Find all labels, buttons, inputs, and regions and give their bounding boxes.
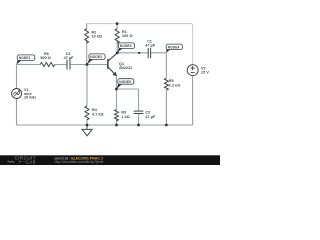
wire C2 top lead xyxy=(138,89,140,111)
wire C2 bottom lead xyxy=(138,114,140,126)
wire R5 bottom lead xyxy=(165,90,167,125)
svg-text:1 kΩ: 1 kΩ xyxy=(121,115,129,119)
node NODE2 xyxy=(87,59,93,64)
junction dot top rail R1 xyxy=(116,22,119,25)
wire V2 bottom to rail xyxy=(192,76,194,125)
resistor R6 xyxy=(40,63,55,67)
resistor R3 xyxy=(115,110,119,121)
capacitor C3 xyxy=(67,60,70,70)
wire R4 top lead xyxy=(86,65,88,107)
junction rail R4 xyxy=(86,124,89,127)
node NODE4 xyxy=(166,49,170,53)
wire top rail (light) xyxy=(87,24,193,65)
source V2 xyxy=(187,65,198,76)
svg-text:47 µF: 47 µF xyxy=(145,43,156,47)
wire bottom rail xyxy=(17,124,193,126)
svg-text:47 µF: 47 µF xyxy=(64,56,75,60)
resistor R2 xyxy=(85,29,89,44)
wire C1 to NODE4 corner xyxy=(151,52,167,54)
svg-text:NODE2: NODE2 xyxy=(90,55,102,59)
svg-text:500 Ω: 500 Ω xyxy=(40,56,51,60)
svg-text:NODE3: NODE3 xyxy=(120,44,132,48)
svg-text:2N2222: 2N2222 xyxy=(119,66,132,70)
wire R2 top lead xyxy=(86,24,88,29)
junction collector wire xyxy=(138,52,140,54)
resistor R5 xyxy=(164,78,168,90)
wire R3 top lead xyxy=(116,89,118,110)
wire NODE1 down to V1 xyxy=(16,65,18,89)
wire R1 bottom lead xyxy=(116,40,118,53)
svg-text:4.7 kΩ: 4.7 kΩ xyxy=(92,112,104,116)
wire collector to C1 xyxy=(117,52,148,54)
junction node NODE2 xyxy=(86,63,89,66)
svg-text:http://circuitlab.com/c8e3jv7j: http://circuitlab.com/c8e3jv7jbvfe xyxy=(55,160,104,164)
wire R4 bottom lead xyxy=(86,119,88,125)
emitter arrowhead xyxy=(112,72,117,77)
transistor Q1 xyxy=(108,53,117,75)
footer bar xyxy=(0,155,220,165)
node NODE5 xyxy=(116,84,122,89)
capacitor C2 xyxy=(134,111,144,113)
capacitor C1 xyxy=(148,48,150,58)
wire NODE4 down R5 top lead xyxy=(165,53,167,78)
node NODE3 xyxy=(117,48,123,53)
wire R1 top lead xyxy=(116,24,118,29)
wire C3 to NODE2 xyxy=(70,64,87,66)
wire V1 bottom to rail xyxy=(16,99,18,125)
svg-text:NODE1: NODE1 xyxy=(19,56,31,60)
svg-text:2.2 kΩ: 2.2 kΩ xyxy=(169,83,181,87)
wire R2 bottom lead xyxy=(86,40,88,65)
wire NODE1 to R6 xyxy=(17,64,41,66)
svg-text:100 Ω: 100 Ω xyxy=(122,34,133,38)
svg-text:15 V: 15 V xyxy=(201,70,209,74)
wire emitter down to NODE5 xyxy=(115,75,117,89)
svg-text:10 kHz: 10 kHz xyxy=(24,96,36,100)
junction rail R3 xyxy=(115,124,118,127)
resistor R4 xyxy=(85,106,89,120)
ground xyxy=(82,125,92,136)
junction rail R5 xyxy=(165,124,168,127)
resistor R1 xyxy=(115,29,119,44)
wire NODE5 to C2 branch xyxy=(116,88,138,90)
node NODE1 xyxy=(16,60,21,65)
svg-text:NODE5: NODE5 xyxy=(119,80,131,84)
wire NODE2 to base xyxy=(87,64,108,66)
wire R3 bottom lead xyxy=(116,119,118,125)
svg-text:10 kΩ: 10 kΩ xyxy=(92,35,103,39)
junction rail C2 xyxy=(137,124,140,127)
wire R6 to C3 xyxy=(55,64,67,66)
junction NODE5 xyxy=(115,88,118,91)
footer logo resistor squiggle xyxy=(8,161,15,163)
svg-text:NODE4: NODE4 xyxy=(168,45,180,49)
junction collector xyxy=(116,51,119,54)
source V1 xyxy=(12,89,22,99)
svg-text:47 µF: 47 µF xyxy=(145,115,156,119)
svg-text:⊢⊣LAB: ⊢⊣LAB xyxy=(19,160,36,165)
